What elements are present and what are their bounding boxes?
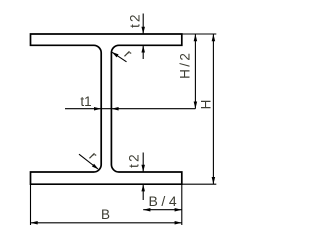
t1 arrow left [94,107,101,111]
dimension H/2 line [194,34,196,109]
B/4 arrow left [143,208,150,212]
dimension H line [212,34,214,184]
dimension t2 bottom line lower (extension to B/4) [142,184,144,200]
B arrow right [175,221,182,225]
svg-text:B: B [101,207,110,222]
B arrow left [31,221,38,225]
svg-text:t2: t2 [127,152,142,168]
svg-text:B/4: B/4 [148,193,180,209]
svg-text:t2: t2 [128,12,143,28]
dimension t1 line [65,108,195,110]
r bottom arrowhead [92,164,99,170]
svg-text:H: H [199,100,214,110]
dimension t2 bottom line upper [142,153,144,173]
t1 arrow right [111,107,118,111]
H arrow top [212,34,216,41]
svg-text:H/2: H/2 [178,51,193,79]
dimension B/4 line [143,209,182,211]
dimension B line [31,222,182,224]
svg-text:t1: t1 [80,94,91,109]
B/4 arrow right [175,208,182,212]
beam profile outline [31,34,182,184]
extension line top (flange top to H dim) [182,33,217,35]
H/2 arrow bottom [194,102,198,109]
t2 top arrow upper [141,27,145,34]
t2 bottom arrow lower [141,184,145,191]
extension line B left [30,185,32,225]
extension line B right [181,185,183,225]
t2 top arrow lower [141,45,145,52]
H arrow bottom [212,177,216,184]
extension line bottom (flange bottom to H dim) [182,183,217,185]
r top arrowhead [112,52,119,57]
dimension t2 top line upper [142,14,144,35]
H/2 arrow top [194,34,198,41]
t2 bottom arrow upper [141,165,145,172]
radius leader bottom (r) [79,154,98,169]
radius leader top (r) [112,52,126,62]
dimension t2 top line lower [142,45,144,59]
